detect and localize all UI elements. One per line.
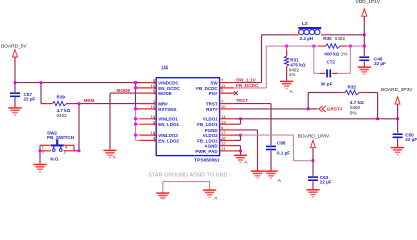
svg-text:U4: U4 — [162, 65, 169, 71]
svg-text:400 kΩ: 400 kΩ — [324, 51, 339, 56]
svg-text:BOARD_1P8V: BOARD_1P8V — [298, 133, 330, 139]
svg-text:BOARD_3P3V: BOARD_3P3V — [381, 87, 413, 93]
svg-text:5: 5 — [221, 88, 223, 93]
svg-text:MODE: MODE — [117, 88, 131, 93]
svg-text:22 µF: 22 µF — [24, 96, 36, 101]
svg-text:SW_1.1V: SW_1.1V — [236, 78, 257, 83]
svg-text:C72: C72 — [327, 60, 336, 65]
svg-text:21: 21 — [221, 146, 225, 151]
svg-text:3: 3 — [153, 119, 155, 124]
svg-text:VDD_1P1V: VDD_1P1V — [356, 0, 381, 5]
svg-text:RST#: RST# — [206, 107, 218, 112]
svg-text:20: 20 — [221, 104, 226, 109]
svg-text:N.O.: N.O. — [50, 156, 59, 161]
svg-text:FB_LDO1: FB_LDO1 — [197, 122, 218, 127]
svg-text:VINLDO1: VINLDO1 — [158, 117, 178, 122]
svg-text:MODE: MODE — [158, 91, 172, 96]
svg-text:TPS650061: TPS650061 — [194, 157, 220, 163]
svg-text:TRST: TRST — [236, 98, 248, 103]
svg-text:18: 18 — [151, 130, 155, 135]
svg-text:1%: 1% — [289, 72, 296, 77]
svg-text:MEM: MEM — [84, 98, 95, 103]
svg-text:PB_SWITCH: PB_SWITCH — [47, 135, 75, 140]
svg-text:MR#: MR# — [158, 102, 168, 107]
svg-text:1%: 1% — [341, 51, 348, 56]
svg-text:7: 7 — [221, 78, 223, 83]
svg-text:VINLDO2: VINLDO2 — [158, 133, 178, 138]
svg-text:C88: C88 — [277, 140, 286, 145]
svg-text:0402: 0402 — [57, 113, 68, 118]
svg-text:1: 1 — [153, 99, 155, 104]
svg-text:FB_DCDC: FB_DCDC — [236, 83, 259, 88]
svg-text:19: 19 — [151, 104, 155, 109]
svg-text:VLDO2: VLDO2 — [203, 133, 219, 138]
svg-text:R30: R30 — [323, 36, 332, 41]
svg-text:17: 17 — [221, 130, 225, 135]
svg-text:13: 13 — [221, 119, 225, 124]
svg-text:BOARD_5V: BOARD_5V — [1, 44, 27, 50]
svg-text:VINDCDC: VINDCDC — [158, 81, 179, 86]
svg-text:A: A — [214, 195, 218, 200]
svg-text:SW: SW — [210, 81, 218, 86]
svg-text:2: 2 — [221, 99, 223, 104]
svg-text:PWR_PAD: PWR_PAD — [195, 149, 218, 154]
svg-text:R39: R39 — [57, 94, 66, 99]
svg-text:22 µF: 22 µF — [320, 179, 332, 184]
svg-text:2.2 µH: 2.2 µH — [300, 36, 314, 41]
svg-text:5%: 5% — [350, 110, 357, 115]
svg-text:PG#: PG# — [209, 91, 219, 96]
svg-text:A: A — [278, 178, 282, 184]
svg-text:RSTSNS: RSTSNS — [158, 107, 176, 112]
svg-text:12: 12 — [221, 141, 225, 146]
svg-text:14: 14 — [221, 114, 226, 119]
svg-text:EN_LDO1: EN_LDO1 — [158, 122, 179, 127]
svg-text:R32: R32 — [348, 85, 357, 90]
svg-text:22 µF: 22 µF — [405, 137, 417, 142]
svg-text:8: 8 — [153, 78, 155, 83]
svg-text:VLDO1: VLDO1 — [203, 117, 219, 122]
svg-text:15: 15 — [151, 114, 155, 119]
svg-text:GRST#: GRST# — [327, 107, 343, 112]
svg-text:A: A — [290, 89, 294, 95]
svg-text:A: A — [113, 154, 117, 160]
svg-text:22 µF: 22 µF — [374, 61, 386, 66]
svg-text:L2: L2 — [302, 21, 308, 26]
svg-text:TRST: TRST — [206, 102, 218, 107]
svg-text:A: A — [244, 160, 248, 166]
svg-text:AGND: AGND — [204, 144, 218, 149]
svg-text:0402: 0402 — [335, 36, 346, 41]
svg-text:STAR GROUND AGND TO GND: STAR GROUND AGND TO GND — [148, 172, 227, 178]
svg-text:EN_LDO2: EN_LDO2 — [158, 138, 179, 143]
svg-text:30 pF: 30 pF — [321, 81, 333, 86]
svg-text:9: 9 — [153, 88, 155, 93]
svg-text:0.1 µF: 0.1 µF — [277, 151, 290, 156]
